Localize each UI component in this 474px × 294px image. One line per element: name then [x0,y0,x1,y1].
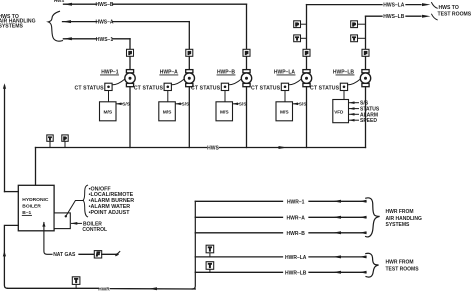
temperature sensor T on HWR-LB line [206,262,214,273]
svg-text:T: T [296,36,299,41]
svg-text:F: F [129,51,132,56]
motor starter M/S for HWP–A [159,102,176,121]
wire HWS–1 supply line [63,37,130,43]
boiler control point POINT ADJUST [89,210,131,216]
svg-text:S/S: S/S [182,102,191,108]
svg-text:HWS–LA: HWS–LA [383,3,405,9]
label: clipped HWS text at top edge [54,0,64,3]
svg-text:F: F [364,51,367,56]
flow sensor F on HWP-A riser [186,49,193,56]
label: HWR FROM AIR HANDLING SYSTEMS [386,209,422,228]
svg-text:SPEED: SPEED [360,118,377,124]
wire HWS-LA supply line to test rooms [307,3,431,9]
wire riser to pump HWP-A [188,22,190,70]
boiler control point ALARM WATER [89,204,131,210]
svg-text:HWR–LA: HWR–LA [285,255,307,261]
pressure sensor P on HWS header [62,135,68,148]
flow sensor F on HWP-LB riser [362,49,369,56]
wire HWR–B return line [195,231,366,237]
svg-text:AIR HANDLING: AIR HANDLING [386,216,422,222]
label: HWR FROM TEST ROOMS [386,260,420,273]
VFD point S/S [349,101,369,107]
S/S start-stop point for HWP–LA [293,102,308,108]
wire NAT GAS line [79,253,94,255]
pump HWP–1 [101,69,136,86]
svg-text:CT STATUS: CT STATUS [191,85,221,91]
svg-text:T: T [208,247,211,253]
connection hook HWS-LA [432,3,438,9]
svg-text:F: F [245,51,248,56]
wire HWS header from boiler to pump suctions [36,146,366,152]
pump HWP–B [217,69,252,86]
wire from HWS header down to boiler top [35,148,37,186]
svg-text:•ALARM BURNER: •ALARM BURNER [89,198,135,204]
CT status sensor for HWP–1 [75,79,125,91]
svg-text:CT STATUS: CT STATUS [134,85,164,91]
svg-text:HWS–A: HWS–A [95,20,113,26]
wire HWR collector riser [192,201,195,289]
connection hook on gas line end [115,252,120,257]
brace gathering HWS lines to air handling systems [48,11,62,41]
motor starter M/S for HWP–1 [100,102,117,121]
wire HWS–B supply line [64,2,247,8]
wire HWR–1 return line [195,199,366,205]
VFD point SPEED [349,118,377,124]
svg-text:BOILER: BOILER [22,204,41,210]
wire boiler return from HWR bottom line (left) [3,225,18,288]
wire boiler supply stub with up arrow (left) [3,83,18,191]
wire NAT GAS supply into boiler bottom [42,222,52,255]
svg-text:CT STATUS: CT STATUS [75,85,105,91]
flow sensor F on gas line [94,251,101,259]
temperature sensor T on HWP-LA riser [294,35,307,42]
svg-text:M/S: M/S [103,110,112,116]
svg-text:HWS–B: HWS–B [95,2,113,8]
svg-text:T: T [208,263,211,269]
svg-text:P: P [353,22,356,27]
boiler B-1 [18,185,54,231]
wire HWR–A return line [195,215,366,221]
svg-text:M/S: M/S [220,110,229,116]
svg-text:M/S: M/S [163,110,172,116]
wire HWR–LB return line [195,270,366,276]
svg-text:HWR–A: HWR–A [287,215,306,221]
label: NAT GAS [53,252,76,258]
wire HWS-LB supply line to test rooms [366,14,431,20]
temperature sensor T on HWR-LA line [206,245,214,257]
svg-text:CT STATUS: CT STATUS [251,85,281,91]
svg-text:P: P [296,22,299,27]
svg-text:F: F [305,51,308,56]
temperature sensor T on HWS header [47,135,53,148]
wire from control box to point list [66,201,84,217]
wire riser below pump HWP–A down to HWS header [188,87,190,148]
svg-text:HWS: HWS [207,146,219,152]
flow sensor F on HWP-B riser [243,49,250,56]
svg-text:HWR–1: HWR–1 [287,199,305,205]
temperature sensor T on HWP-LB riser [351,35,366,42]
svg-text:HWS TO: HWS TO [439,5,459,11]
label: HWS TO TEST ROOMS [438,5,472,18]
svg-text:HWR FROM: HWR FROM [386,260,414,266]
boiler control point LOCAL/REMOTE [89,192,134,198]
svg-text:SYSTEMS: SYSTEMS [0,24,23,30]
wire from CT sensor down to starter for HWP–1 [108,91,110,102]
variable frequency drive VFD for HWP-LB [333,100,349,123]
CT status sensor for HWP–B [191,79,241,91]
svg-text:HWR: HWR [98,286,110,292]
svg-text:HYDRONIC: HYDRONIC [22,197,49,203]
wire from CT sensor down to starter for HWP–A [167,91,169,102]
pump HWP–A [160,69,195,86]
S/S start-stop point for HWP–B [233,102,248,108]
wire riser to pump HWP-1 [129,39,131,70]
svg-text:TEST ROOMS: TEST ROOMS [386,267,420,273]
motor starter M/S for HWP–LA [276,102,293,121]
brace HWR from air handling systems [366,198,380,237]
svg-text:M/S: M/S [280,110,289,116]
svg-text:VFD: VFD [334,109,344,114]
flow sensor F on HWP-LA riser [303,49,310,56]
wire from CT sensor down to starter for HWP–B [224,91,226,102]
svg-text:TEST ROOMS: TEST ROOMS [438,12,472,18]
svg-text:P: P [64,136,67,141]
CT status sensor for HWP–A [134,79,184,91]
wire riser to pump HWP-LB [365,16,367,70]
wire riser below pump HWP–1 down to HWS header [129,87,131,148]
wire HWR bottom return line to boiler [7,286,195,292]
svg-text:HWS–1: HWS–1 [96,37,113,43]
svg-text:CONTROL: CONTROL [82,227,107,233]
wire riser below pump HWP–LB down to HWS header [365,87,367,148]
S/S start-stop point for HWP–1 [116,102,131,108]
boiler control point ALARM BURNER [89,198,135,204]
boiler control point ON/OFF [89,186,112,192]
svg-text:HWS–LB: HWS–LB [383,14,405,20]
boiler control interface box [54,213,70,229]
CT status sensor for HWP–LB [310,79,360,91]
connection hook HWS-LB [432,14,438,20]
svg-text:HWR–B: HWR–B [287,231,306,237]
svg-text:HWR–LB: HWR–LB [285,270,307,276]
pressure sensor P on HWP-LA riser [294,21,307,28]
pump HWP–LB [333,69,371,86]
flow sensor F on HWP-1 riser [127,49,134,56]
wire HWR–LA return line [195,255,366,261]
S/S start-stop point for HWP–A [175,102,190,108]
wire riser below pump HWP–LA down to HWS header [306,87,308,148]
svg-text:SYSTEMS: SYSTEMS [386,222,411,228]
wire riser to pump HWP-B [246,4,248,70]
VFD point STATUS [349,107,380,113]
wire riser below pump HWP–B down to HWS header [246,87,248,148]
pump HWP–LA [274,69,312,86]
svg-text:CT STATUS: CT STATUS [310,85,340,91]
CT status sensor for HWP–LA [251,79,301,91]
svg-text:HWS: HWS [54,0,64,3]
svg-text:T: T [353,36,356,41]
VFD point ALARM [349,112,378,118]
pressure sensor P on HWP-LB riser [351,21,366,28]
wire from CT sensor down to starter for HWP–LA [284,91,286,102]
brace HWR from test rooms [366,253,379,277]
svg-text:•POINT ADJUST: •POINT ADJUST [89,210,131,216]
svg-text:HWR FROM: HWR FROM [386,209,414,215]
label: BOILER CONTROL with arrow into control box [71,221,107,233]
brace for boiler control points [83,185,88,217]
svg-text:S/S: S/S [299,102,308,108]
svg-text:F: F [188,51,191,56]
svg-text:•ALARM WATER: •ALARM WATER [89,204,131,210]
svg-text:T: T [49,136,52,141]
wire from CT sensor down to starter for HWP–LB [343,91,345,100]
label: HWS TO AIR HANDLING SYSTEMS [0,14,36,30]
svg-text:S/S: S/S [239,102,248,108]
wire riser to pump HWP-LA [306,5,308,70]
motor starter M/S for HWP–B [216,102,233,121]
svg-text:T: T [75,278,78,284]
temperature sensor T on bottom HWR line [72,277,80,289]
wire gas line continuation [102,253,118,255]
svg-text:NAT GAS: NAT GAS [53,252,76,258]
svg-text:S/S: S/S [122,102,131,108]
wire HWS–A supply line [63,20,190,26]
